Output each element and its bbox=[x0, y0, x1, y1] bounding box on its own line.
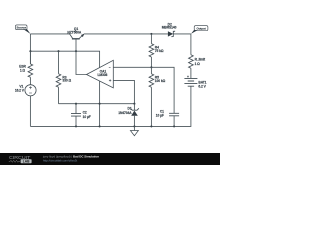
resistor ESR bbox=[19, 51, 32, 77]
resistor R3 bbox=[56, 51, 71, 103]
capacitor C2 bbox=[71, 104, 91, 127]
node junction R5 rail bbox=[150, 125, 152, 127]
svg-text:16.2 V: 16.2 V bbox=[15, 89, 25, 93]
node junction Vminus rail cross bbox=[99, 103, 101, 105]
capacitor C1 bbox=[156, 110, 179, 127]
wire top right bbox=[173, 33, 191, 35]
node junction Vminus bottom rail bbox=[99, 125, 101, 127]
resistor R5 bbox=[149, 67, 166, 126]
node junction C1 rail bbox=[173, 125, 175, 127]
svg-text:330 Ω: 330 Ω bbox=[62, 79, 71, 83]
transistor Q1 bbox=[67, 27, 84, 51]
svg-text:1N4734A: 1N4734A bbox=[118, 111, 132, 115]
resistor R_limit bbox=[189, 55, 206, 68]
resistor R4 bbox=[149, 34, 164, 67]
wire R_limit to battery bbox=[190, 68, 192, 78]
wire mid source rail bbox=[30, 51, 99, 68]
wire left column vertical bbox=[29, 34, 31, 64]
wire mid-bottom horizontal bbox=[59, 103, 135, 105]
zener diode D1 bbox=[118, 104, 139, 127]
svg-text:1 Ω: 1 Ω bbox=[195, 62, 201, 66]
voltage source V1 bbox=[15, 77, 36, 126]
battery BAT1 bbox=[184, 75, 206, 89]
node junction source/ESR bbox=[29, 50, 31, 52]
wire noninverting input bbox=[113, 80, 134, 103]
wire right column top bbox=[190, 34, 192, 55]
svg-text:10 µF: 10 µF bbox=[83, 115, 91, 119]
node junction divider tap bbox=[150, 66, 152, 68]
node junction top / R4 bbox=[150, 33, 152, 35]
svg-text:MBRS140: MBRS140 bbox=[162, 26, 177, 30]
net tag Source bbox=[16, 25, 31, 34]
net tag Output bbox=[191, 26, 208, 34]
node junction base cross bbox=[75, 50, 77, 52]
svg-text:NZT560A: NZT560A bbox=[67, 30, 81, 34]
wire top mid horizontal bbox=[84, 33, 168, 35]
watermark bar bbox=[0, 153, 220, 165]
svg-text:R_limit: R_limit bbox=[195, 58, 206, 62]
svg-text:75 kΩ: 75 kΩ bbox=[155, 49, 164, 53]
diode D2 MBRS140 bbox=[162, 22, 177, 37]
svg-text:10 µF: 10 µF bbox=[156, 113, 164, 117]
node junction C2 top bbox=[75, 103, 77, 105]
svg-text:LM308: LM308 bbox=[97, 73, 107, 77]
svg-text:LAB: LAB bbox=[23, 159, 30, 163]
svg-text:100 kΩ: 100 kΩ bbox=[155, 79, 166, 83]
svg-text:http://circuitlab.com/c6vu3t: http://circuitlab.com/c6vu3t bbox=[43, 159, 77, 163]
wire battery to rail bbox=[30, 86, 191, 126]
wire op-amp output to base bbox=[76, 51, 87, 74]
svg-text:Source: Source bbox=[17, 26, 27, 30]
svg-text:1 Ω: 1 Ω bbox=[20, 69, 26, 73]
node junction R3 top bbox=[57, 50, 59, 52]
node junction D1 rail bbox=[133, 125, 135, 127]
node junction C2 rail bbox=[75, 125, 77, 127]
svg-text:6.2 V: 6.2 V bbox=[198, 85, 206, 89]
ground bbox=[130, 126, 138, 135]
svg-text:Output: Output bbox=[197, 27, 206, 31]
op-amp OA1 bbox=[87, 60, 114, 126]
wire top-left horizontal bbox=[30, 33, 69, 35]
wire inverting input bbox=[113, 67, 174, 113]
node junction zener top bbox=[133, 103, 135, 105]
